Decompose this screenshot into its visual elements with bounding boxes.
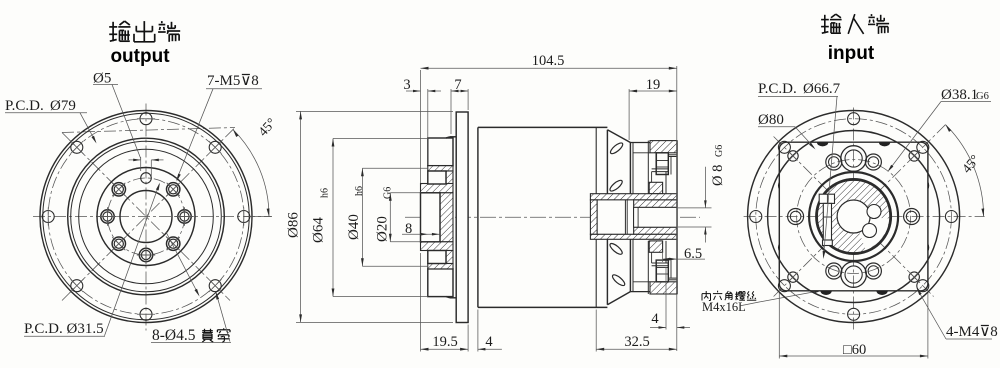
large bearing hole inner ring	[841, 146, 867, 172]
small hole in coupling 1	[867, 205, 881, 219]
M4 screw head on square edge	[879, 142, 890, 146]
svg-text:h6: h6	[320, 188, 331, 198]
pilot step line u1	[668, 154, 677, 156]
M4 screw head on square side edge	[928, 243, 929, 251]
M4 screw head on square edge	[876, 291, 887, 295]
outer hole #5 on PCD79 right view	[848, 308, 860, 320]
svg-text:19: 19	[646, 77, 661, 93]
bore step line 2	[637, 207, 639, 227]
hole 4.5mm #4 on PCD79	[209, 280, 221, 292]
inner vertical 671 l	[670, 260, 672, 278]
svg-text:Ø38.1: Ø38.1	[941, 87, 978, 103]
input flange hatch block lower	[649, 241, 662, 252]
svg-text:Ø79: Ø79	[50, 98, 76, 114]
output mounting flange plate D86	[456, 112, 468, 323]
svg-text:7-M5⊽8: 7-M5⊽8	[207, 73, 259, 89]
tapped hole M5 #3 on PCD31.5	[167, 237, 180, 250]
pilot D38.1 line upper	[652, 168, 669, 170]
bolt circle PCD79 (dash-dot)	[48, 119, 244, 315]
left view diagonal centerline (down-right)	[62, 133, 230, 301]
M4 screw head on square edge	[817, 142, 828, 146]
svg-text:□60: □60	[843, 342, 866, 358]
input flange inner vertical u	[647, 141, 649, 194]
svg-text:Ø64: Ø64	[311, 217, 327, 243]
right view vertical centerline	[853, 108, 855, 331]
left view vertical centerline	[145, 104, 147, 331]
circle D80 body	[768, 131, 940, 303]
dimension 32.5	[595, 310, 597, 352]
small hole inner ring	[788, 209, 804, 225]
unhatched sector of coupling disc	[854, 217, 890, 250]
inner bolt ring PCD66.7 (dash-dot)	[797, 160, 911, 274]
bold circle inner race	[816, 179, 891, 254]
svg-text:8-Ø4.5: 8-Ø4.5	[152, 327, 196, 344]
input flange hatch block upper	[649, 182, 662, 193]
screw recess upper	[656, 153, 668, 175]
cone transition to input flange	[607, 130, 630, 143]
input flange back face	[676, 141, 678, 294]
svg-text:32.5: 32.5	[624, 334, 649, 350]
input flange inner vertical l	[647, 241, 649, 294]
svg-text:P.C.D. Ø31.5: P.C.D. Ø31.5	[24, 321, 104, 337]
hub hatch incl. front pilot upper	[421, 184, 454, 193]
svg-text:Ø80: Ø80	[758, 112, 784, 128]
svg-text:G6: G6	[976, 91, 989, 102]
svg-text:4: 4	[485, 334, 493, 350]
dimension square 60	[778, 293, 780, 359]
outer hole #7 on PCD79 right view	[750, 211, 762, 223]
small hole inner ring	[904, 209, 920, 225]
gearbox main body outline	[478, 126, 608, 128]
bolt circle PCD31.5 (dash-dot)	[108, 178, 185, 255]
body joint line upper	[595, 127, 597, 193]
tapped hole M5 #5 on PCD31.5	[112, 237, 125, 250]
dimension D5 with leader	[140, 157, 142, 171]
shaft bore D8 G6	[634, 207, 677, 227]
large bearing hole inner ring	[841, 262, 867, 288]
dimension D20 G6	[390, 192, 420, 194]
dimension 6.5	[662, 252, 664, 262]
plate bottom edge	[630, 291, 650, 293]
small hole inner ring	[826, 154, 842, 170]
tapped hole M5 #1 on PCD31.5	[167, 183, 180, 196]
hub hatch below lower M5 window	[428, 264, 453, 269]
M5 tapped hole section lower	[428, 251, 446, 264]
svg-text:Ø40: Ø40	[346, 214, 362, 240]
outer circle D86	[40, 111, 252, 323]
bore step line	[624, 200, 626, 234]
title Chinese 输出端 (output end)	[109, 26, 117, 28]
hub hatch incl. front pilot lower	[421, 242, 454, 251]
chamfer top	[446, 137, 450, 138]
svg-text:G6: G6	[383, 187, 394, 199]
socket screw head ellipse 4	[611, 273, 626, 287]
hole D5 at 12 oclock on PCD31.5	[141, 173, 152, 184]
svg-text:19.5: 19.5	[432, 334, 457, 350]
left view diagonal centerline (45deg up-right, extended to arc)	[62, 127, 236, 301]
dimension 4 (flange to body)	[477, 310, 479, 352]
right view horizontal centerline	[744, 216, 985, 218]
chamfer bottom	[446, 297, 450, 298]
tapped hole M4 corner	[788, 272, 798, 282]
tapped hole M5 #6 on PCD31.5	[101, 210, 114, 223]
dimension 4 (input pilot)	[665, 267, 667, 330]
svg-text:h6: h6	[354, 186, 365, 196]
left view horizontal centerline	[33, 216, 272, 218]
svg-text:8: 8	[405, 221, 412, 237]
svg-text:Ø5: Ø5	[93, 71, 111, 87]
input flange hatch band bottom	[650, 282, 677, 294]
dimension D64 h6	[333, 138, 428, 140]
svg-text:M4x16L: M4x16L	[702, 300, 746, 314]
hub hatch right of lower M5 window	[446, 251, 453, 264]
input plate line	[632, 143, 634, 292]
svg-text:4: 4	[651, 311, 659, 327]
pilot D38.1 line lower	[652, 262, 669, 264]
outer hole #6 on PCD79 right view	[778, 280, 790, 292]
svg-text:4-M4⊽8: 4-M4⊽8	[946, 324, 998, 340]
pilot step line l1	[668, 279, 677, 281]
45deg arc dimension right view	[946, 125, 984, 217]
dimension D86 section	[296, 110, 453, 112]
circle D64 chamfer	[71, 141, 222, 292]
hub hatch right of upper M5 window	[446, 171, 453, 184]
title Chinese 输入端 (input end)	[821, 19, 829, 21]
extra leader arrow onto PCD79 circle	[166, 232, 199, 295]
tapped hole M4 corner	[909, 151, 919, 161]
input adapter front face	[629, 143, 631, 292]
outer hole #4 on PCD79 right view	[917, 280, 929, 292]
input flange hatch band top	[650, 141, 677, 153]
input coupling bore	[837, 200, 870, 233]
svg-text:104.5: 104.5	[532, 53, 565, 69]
small hole inner ring	[865, 154, 881, 170]
circle D40 boss	[97, 168, 195, 266]
hole 4.5mm #5 on PCD79	[140, 308, 152, 320]
socket screw head ellipse 1	[609, 141, 624, 155]
output hub D64 upper band (bearing ring)	[428, 138, 453, 166]
output hub D64 lower band	[428, 269, 453, 297]
small hole in coupling 2	[863, 224, 877, 238]
tapped hole M5 #2 on PCD31.5	[178, 210, 191, 223]
center bore circle D20	[120, 191, 172, 243]
outer hole #3 on PCD79 right view	[945, 211, 957, 223]
dimension 104.5	[420, 70, 422, 183]
svg-text:P.C.D.: P.C.D.	[5, 98, 44, 114]
hub hatch above upper M5 window	[428, 166, 453, 171]
circle D55 step	[79, 149, 214, 284]
outer hole #1 on PCD79 right view	[848, 113, 860, 125]
tapped hole M5 #4 on PCD31.5	[139, 248, 152, 261]
hole 4.5mm #2 on PCD79	[209, 141, 221, 153]
shaft inner bore D14	[597, 200, 633, 234]
clamp slot T-shape	[819, 194, 834, 203]
input shaft hollow section	[590, 194, 676, 200]
svg-text:P.C.D.: P.C.D.	[758, 81, 797, 97]
circle D64 h6 boss	[68, 138, 225, 295]
hub hatch right of bore window	[440, 193, 453, 242]
svg-text:Ø20: Ø20	[375, 216, 391, 242]
hole 4.5mm #7 on PCD79	[42, 211, 54, 223]
svg-text:6.5: 6.5	[684, 246, 702, 262]
dimension D8 G6	[678, 207, 712, 209]
socket screw head ellipse 3	[608, 242, 623, 256]
body joint line lower	[595, 239, 597, 307]
svg-text:3: 3	[403, 77, 410, 93]
right view diagonal centerlines	[774, 125, 946, 297]
hole 4.5mm #8 on PCD79	[71, 141, 83, 153]
45deg angle dimension arc	[233, 130, 269, 217]
M4 screw head on square side edge	[928, 181, 929, 189]
outer circle D86 (output flange seen behind)	[748, 111, 960, 323]
svg-text:output: output	[110, 46, 170, 67]
M5 tapped hole section upper (depth 8)	[428, 171, 446, 184]
M4 screw head on square side edge	[778, 181, 779, 189]
inner vertical 671 u	[670, 157, 672, 175]
bold circle D38.1 bearing seat outer	[809, 172, 898, 261]
svg-text:G6: G6	[714, 145, 725, 157]
socket screw head ellipse 2	[608, 179, 623, 193]
outer hole #8 on PCD79 right view	[778, 141, 790, 153]
label socket head screw M4x16L	[705, 291, 707, 296]
dimension 19.5	[420, 253, 422, 352]
dimension 19	[628, 89, 630, 140]
step face at 666 u	[665, 172, 667, 194]
tapped hole M5 #7 on PCD31.5	[112, 183, 125, 196]
rim circle inside D86	[43, 113, 249, 319]
svg-text:7: 7	[454, 77, 461, 93]
dimension D40 h6	[362, 167, 427, 169]
hatched coupling disc	[817, 180, 889, 252]
hole 4.5mm #6 on PCD79	[71, 280, 83, 292]
square plate 60x60	[779, 142, 928, 291]
section view centerline	[405, 216, 700, 218]
hole 4.5mm #1 on PCD79	[140, 113, 152, 125]
M4 screw head on square edge	[820, 291, 831, 295]
screw recess lower	[656, 260, 668, 282]
plate top edge	[630, 142, 650, 144]
svg-text:Ø 8: Ø 8	[710, 165, 726, 186]
hole 4.5mm #3 on PCD79	[238, 211, 250, 223]
small hole inner ring	[826, 263, 842, 279]
outer hole #2 on PCD79 right view	[917, 141, 929, 153]
dimension 8 (bore depth)	[402, 233, 439, 235]
svg-text:Ø86: Ø86	[286, 212, 302, 238]
center bore D20 section window	[421, 193, 441, 242]
dimension 3	[427, 89, 429, 165]
M4 screw head on square side edge	[778, 243, 779, 251]
small hole inner ring	[865, 263, 881, 279]
step face at 666 l	[665, 241, 667, 263]
tapped hole M4 corner	[909, 272, 919, 282]
svg-text:Ø66.7: Ø66.7	[803, 81, 841, 97]
svg-text:input: input	[828, 43, 875, 64]
tapped hole M4 corner	[788, 151, 798, 161]
dimension 7	[450, 89, 452, 134]
left view 45deg diagonal centerline NE-SW	[62, 128, 235, 133]
PCD79 dash circle right view	[756, 119, 952, 315]
